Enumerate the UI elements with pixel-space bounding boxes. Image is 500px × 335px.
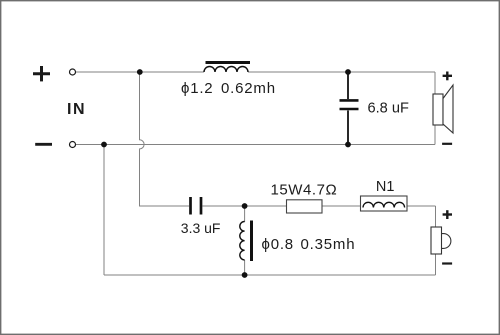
input plus symbol [33,66,50,81]
inductor L1 core bar [206,61,251,64]
inductor N1 coil [363,202,405,207]
node on top rail [137,69,143,75]
wire woofer bottom lead [434,125,436,145]
tweeter minus mark [442,262,452,264]
wire shunt inductor bottom lead [244,260,246,275]
tweeter dome [442,234,451,249]
wire woofer top lead [434,72,436,94]
svg-text:3.3 uF: 3.3 uF [181,220,221,236]
wire top rail right [248,71,435,73]
input terminal + [70,69,76,75]
resistor R1 body [287,200,323,213]
svg-text:ϕ0.80.35mh: ϕ0.80.35mh [262,236,356,253]
inductor L1 coil [204,67,248,72]
input terminal - [70,142,76,148]
svg-text:ϕ1.20.62mh: ϕ1.20.62mh [181,80,276,97]
node bottom rail [242,272,248,278]
inductor N1 box [361,196,408,211]
capacitor C1 top lead [347,72,349,99]
wire mid rail N1 to tweeter [407,205,436,207]
capacitor C1 bottom lead [347,111,349,145]
woofer cone [443,85,453,133]
woofer magnet rectangle [433,94,443,125]
woofer minus mark [442,143,452,145]
input minus symbol [35,143,52,146]
woofer plus mark [443,72,452,81]
wire bottom rail [104,274,436,276]
node mid rail [242,203,248,209]
node on minus rail [101,142,107,148]
wire tweeter top lead [435,206,437,227]
wire top rail left [76,71,204,73]
svg-text:6.8 uF: 6.8 uF [368,101,409,117]
wire mid rail cap to resistor [203,205,287,207]
tweeter magnet rectangle [431,227,442,254]
wire minus rail [76,144,435,146]
wire feed from top node with hop over minus rail [140,72,190,206]
wire tweeter bottom lead [435,254,437,275]
wire shunt inductor top lead [244,206,246,222]
svg-text:15W4.7Ω: 15W4.7Ω [271,182,338,199]
inductor L2 coil [240,222,245,260]
svg-text:IN: IN [67,101,86,118]
node C1 bottom [345,142,351,148]
inductor L2 core bar [250,221,253,262]
tweeter plus mark [443,210,452,219]
node C1 top [345,69,351,75]
wire bottom return vertical [103,145,105,276]
svg-text:N1: N1 [376,179,395,195]
wire mid rail resistor to N1 [322,205,361,207]
capacitor C1 plates [340,100,359,109]
capacitor C2 plates [191,197,202,215]
